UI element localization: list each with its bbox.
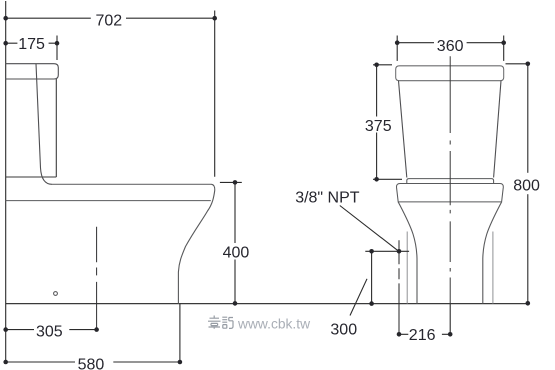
svg-text:375: 375 <box>365 118 392 135</box>
front view: left trap shadow line <box>406 232 408 304</box>
leader NPT <box>340 206 398 251</box>
front view: tank right side <box>494 81 501 178</box>
side view: bolt cap circle <box>54 292 58 296</box>
front view: tank lid <box>396 66 504 81</box>
svg-text:3/8" NPT: 3/8" NPT <box>295 189 360 206</box>
dim 216 line <box>399 333 450 335</box>
dim 580 front extension <box>179 304 181 363</box>
svg-text:400: 400 <box>223 245 250 262</box>
side view: rim bottom line <box>6 200 211 202</box>
side view: bowl front profile curve <box>178 190 214 304</box>
side view: seat top surface <box>52 183 212 185</box>
svg-text:580: 580 <box>78 356 105 370</box>
front view: center line below ground <box>449 304 451 335</box>
front view: right trap shadow line <box>492 232 494 304</box>
svg-text:175: 175 <box>18 36 45 53</box>
dim 800 vertical <box>527 64 529 303</box>
side view: tank bottom <box>6 176 57 178</box>
front view: bowl left S-curve <box>398 202 417 304</box>
dim 360 right extension <box>503 36 505 61</box>
front view: bowl rim band <box>396 184 503 202</box>
svg-text:360: 360 <box>437 38 464 55</box>
dim 375 bottom extension <box>373 178 402 180</box>
svg-text:702: 702 <box>96 13 123 30</box>
side view: seat nose curve <box>212 184 215 190</box>
dim 175 right extension tick <box>56 36 58 61</box>
dim 400 vertical <box>234 182 236 303</box>
front view: bowl right S-curve <box>483 202 502 304</box>
front view: seat hinge band <box>407 179 494 184</box>
side view: tank inner slant line <box>36 64 52 185</box>
front view: center dash-dot line <box>449 56 451 303</box>
leader 300 <box>350 279 367 316</box>
side view: tank back edge + extension line <box>5 1 7 362</box>
dim 175 line <box>6 42 57 44</box>
dim 300 vertical <box>371 251 373 304</box>
dim 360 line <box>397 42 504 44</box>
side view: tank lid <box>6 64 59 79</box>
watermark CJK 章記 (drawn as strokes) <box>208 316 233 329</box>
dim 702 line <box>6 17 215 19</box>
side view: trap centerline dash-dot <box>96 227 98 330</box>
dim 580 line <box>6 361 180 363</box>
dim 702 right extension <box>214 11 216 177</box>
dim 305 line <box>6 329 97 331</box>
dim 375 top extension <box>373 64 392 66</box>
dim 375 vertical <box>376 65 378 180</box>
dim 400 extension at seat <box>220 181 242 183</box>
supply horizontal line <box>365 250 409 252</box>
ground line <box>6 303 529 305</box>
svg-text:www.cbk.tw: www.cbk.tw <box>237 316 310 331</box>
svg-text:800: 800 <box>513 178 540 195</box>
svg-text:216: 216 <box>409 327 436 344</box>
svg-text:305: 305 <box>36 323 63 340</box>
side view: tank front edge <box>55 79 57 177</box>
dim 360 left extension <box>396 36 398 61</box>
dim 800 top extension <box>506 63 530 65</box>
front view: tank left side <box>399 81 407 178</box>
svg-text:300: 300 <box>330 321 357 338</box>
front view: supply dash-dot line <box>398 240 400 334</box>
